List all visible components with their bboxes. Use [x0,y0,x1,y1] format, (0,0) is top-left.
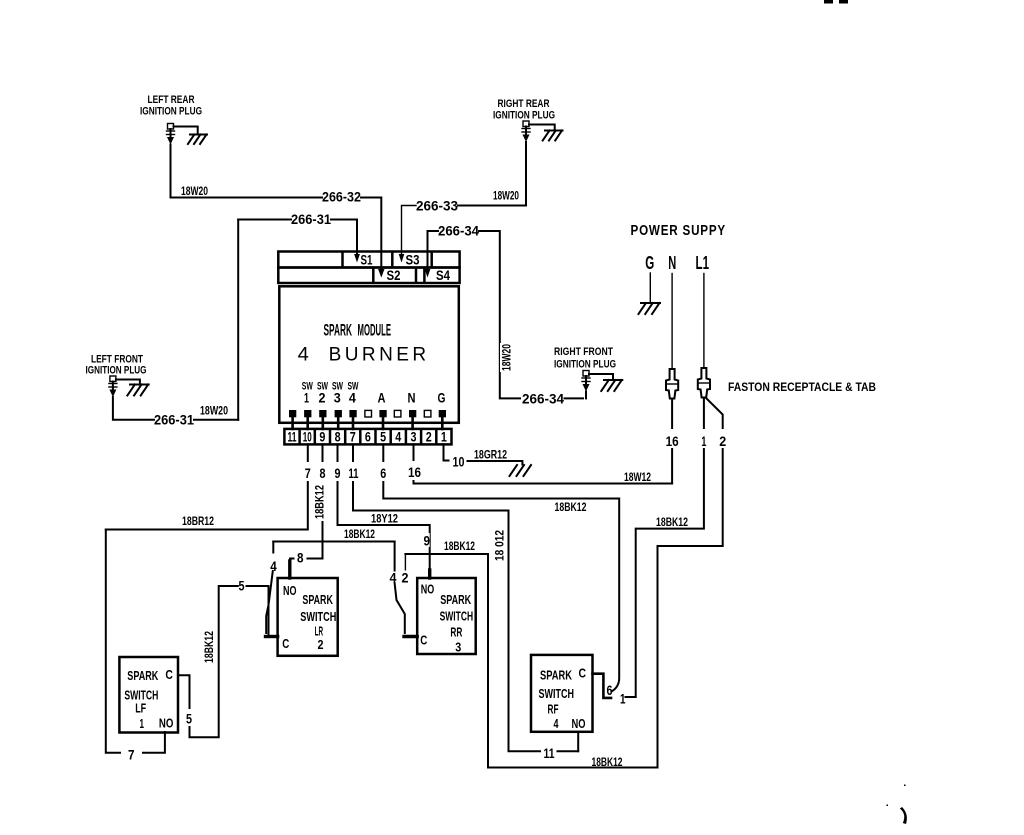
wire N-16 down [665,399,680,484]
svg-text:LEFT REAR: LEFT REAR [148,94,195,106]
wire 1 from L1 [626,398,711,698]
spark switch LR labels [282,584,336,652]
svg-text:11: 11 [288,430,297,445]
svg-text:S1: S1 [361,253,373,268]
terminal strip 11..1 [284,429,451,445]
wire terminal10 no.7 [106,444,315,529]
faston receptacle N [666,369,678,399]
RR NO post [428,570,431,578]
pin labels 1 2 3 4 A N G [304,391,446,406]
ignition plug left front [109,376,117,397]
svg-text:LF: LF [135,702,146,716]
svg-text:SWITCH: SWITCH [440,610,474,624]
svg-text:SPARK: SPARK [302,593,333,607]
ignition plug left rear [167,124,175,145]
svg-text:POWER SUPPY: POWER SUPPY [631,223,727,239]
svg-text:4: 4 [395,430,401,445]
svg-text:L1: L1 [696,253,710,273]
svg-text:11: 11 [544,746,555,761]
spark switch RR box [417,578,476,654]
svg-text:5: 5 [380,430,386,445]
wire label 18BK12 rotated on wire 8 [314,481,327,522]
wire label 266-34 lower [522,392,583,407]
svg-text:18BK12: 18BK12 [204,631,216,663]
svg-text:18BK12: 18BK12 [344,529,375,541]
module terminal pads row [289,410,446,417]
LR NO post and 8 bracket [290,551,323,579]
wire label 18BK12 rotated on riser [203,629,216,665]
svg-text:G: G [645,253,654,273]
label 1 at RF switch [620,692,626,707]
svg-text:RR: RR [450,626,462,640]
svg-text:18BK12: 18BK12 [592,757,623,769]
svg-text:9: 9 [335,466,341,481]
svg-text:10: 10 [303,430,312,445]
svg-text:3: 3 [411,430,417,445]
svg-text:1: 1 [701,434,706,449]
svg-text:2: 2 [426,430,432,445]
svg-text:SWITCH: SWITCH [300,610,336,624]
svg-text:18W20: 18W20 [493,191,519,203]
spark switch LF labels [124,668,173,731]
wire label 18BK12 on wire 2 bottom [590,756,623,769]
svg-text:11: 11 [349,466,359,481]
svg-text:FASTON RECEPTACLE & TAB: FASTON RECEPTACLE & TAB [728,380,876,394]
label RIGHT FRONT IGNITION PLUG [554,346,616,371]
wire 18BK12 between LR and RR post 4 [273,542,394,572]
svg-text:6: 6 [607,683,613,698]
svg-text:N: N [408,391,416,406]
ignition plug right front [582,371,590,399]
wire left rear plug down-right 18W20 [171,145,323,198]
wire L1 down [703,274,705,369]
page edge mark 1 [824,0,833,4]
svg-text:G: G [438,391,446,406]
svg-text:SPARK: SPARK [540,669,572,683]
svg-text:SWITCH: SWITCH [124,689,158,703]
wire LF C to riser [179,586,238,737]
faston receptacle L1 [698,368,710,398]
wire right rear plug down to 266-33 [458,142,526,206]
svg-text:6: 6 [380,466,386,481]
svg-text:IGNITION PLUG: IGNITION PLUG [493,110,555,122]
wire label 18BK12 on wire 1 [656,517,688,529]
label 2 RR and NC stub [400,554,411,586]
svg-text:2: 2 [402,571,409,586]
svg-text:5: 5 [239,579,245,594]
stray mark bottom right [887,785,907,825]
svg-text:9: 9 [319,430,325,445]
label 9 at RR switch [423,533,431,549]
svg-text:RIGHT REAR: RIGHT REAR [498,98,550,110]
svg-text:S3: S3 [406,253,420,268]
label S1 [361,253,373,268]
label LEFT REAR IGNITION PLUG [140,94,202,118]
wire terminal8 no.9 [331,444,430,577]
label N [668,253,676,273]
spark switch LF box [119,657,178,733]
wire label 18W20 rotated [500,343,514,372]
wire label 18W20 left front [198,405,230,418]
wire 266-32 to S2 [322,190,385,278]
svg-text:7: 7 [128,748,135,763]
svg-text:266-34: 266-34 [522,392,564,407]
wire label 18 012 rotated [494,528,507,563]
svg-text:18BR12: 18BR12 [182,516,214,528]
svg-text:2: 2 [318,638,324,652]
svg-text:4: 4 [554,717,559,731]
svg-text:S4: S4 [436,268,450,283]
wire left rear plug to ground [174,127,198,135]
RF C stub [593,674,612,698]
label 4 RR [388,571,398,586]
wire terminal1 no.10 to ground [444,444,523,469]
spark module main box U1 [279,286,459,423]
svg-text:8: 8 [297,551,304,566]
wire left front plug to ground [116,380,140,385]
ground left front [127,385,148,396]
spark module connector row 1 (S1 S3) [278,252,459,268]
label S3 [406,253,420,268]
svg-text:A: A [378,391,386,406]
svg-text:IGNITION PLUG: IGNITION PLUG [86,365,147,377]
ground left rear [188,135,207,145]
RR switch blade [395,583,405,633]
wire 2 from L1 tab [405,398,728,768]
label LEFT FRONT IGNITION PLUG [86,354,147,377]
svg-text:NO: NO [572,717,586,731]
svg-text:7: 7 [350,430,356,445]
svg-text:18BK12: 18BK12 [555,502,587,514]
label 4 LR [270,559,277,574]
svg-text:NO: NO [283,584,297,598]
svg-text:266-31: 266-31 [291,212,331,227]
page edge mark 2 [839,0,848,4]
ignition plug right rear [522,121,530,142]
svg-text:SPARK: SPARK [127,669,158,683]
label SPARK MODULE [324,321,392,340]
ground right rear [543,131,563,141]
label POWER SUPPY [631,223,727,239]
label 6 at RF [607,683,613,698]
RF NO post and wire 11 label [544,732,579,761]
svg-text:266-34: 266-34 [438,224,479,239]
wire G to ground [649,273,651,303]
svg-text:18Y12: 18Y12 [371,514,398,526]
label L1 [696,253,710,273]
wire label 18W20 right rear [491,190,520,203]
svg-text:18W20: 18W20 [502,344,514,371]
svg-text:IGNITION PLUG: IGNITION PLUG [140,106,202,118]
svg-text:18BK12: 18BK12 [656,517,688,529]
svg-text:2: 2 [719,434,726,449]
svg-text:NO: NO [421,583,435,597]
svg-text:266-31: 266-31 [154,413,194,428]
LR switch blade [266,571,273,633]
svg-text:SPARK: SPARK [324,321,353,340]
label 5 and wire to LR C [239,579,269,635]
label FASTON RECEPTACLE & TAB [728,380,876,394]
svg-text:1: 1 [620,692,626,707]
svg-text:1: 1 [304,391,309,406]
wire 266-34 to S4 [425,224,480,278]
wire right rear plug to ground [529,125,555,131]
wire terminal7 no.11 [345,444,540,751]
svg-text:4: 4 [298,345,310,366]
svg-text:18W12: 18W12 [624,472,651,484]
RR C stub [404,635,417,638]
wire label 18BK12 on post4 wire [342,528,378,542]
spark module connector row 2 (S2 S4) [278,268,459,284]
svg-text:4: 4 [270,559,277,574]
spark switch RF labels [539,667,587,732]
wire 266-34 right riser 18W20 to right front plug [479,231,520,398]
LR C stub [266,635,278,638]
label S4 [436,268,450,283]
svg-text:2: 2 [319,391,326,406]
svg-text:7: 7 [305,466,311,481]
svg-text:S2: S2 [387,268,401,283]
wire right front plug to ground [589,374,613,380]
svg-text:SPARK: SPARK [440,593,471,607]
svg-text:RIGHT FRONT: RIGHT FRONT [554,346,613,358]
svg-text:C: C [420,634,427,648]
pad stubs to terminal strip [293,417,443,429]
wire 18BR12 left route to LF NO [106,530,165,763]
wire label 18GR12 [474,450,507,462]
svg-text:10: 10 [453,455,465,470]
spark switch RR labels [420,583,473,655]
svg-text:18W20: 18W20 [200,406,228,418]
svg-text:18GR12: 18GR12 [474,450,507,462]
svg-text:N: N [668,253,676,273]
wire terminal5 no.6 [377,444,619,691]
label 4 BURNER [298,345,426,366]
svg-text:C: C [579,667,587,681]
wire terminal3 no.16 [406,444,672,483]
svg-text:16: 16 [666,434,679,449]
wire label 18BK12 on wire 2 at RR [444,541,475,553]
svg-text:9: 9 [424,534,431,549]
labels SW SW SW SW [302,381,359,393]
wire label 18W20 [179,185,210,198]
wire left front plug to 266-31 riser [113,220,238,428]
svg-text:SWITCH: SWITCH [539,687,575,701]
ground power G [638,303,660,314]
svg-text:18BK12: 18BK12 [444,541,475,553]
svg-text:3: 3 [334,391,341,406]
svg-text:266-33: 266-33 [416,199,458,214]
svg-text:NO: NO [159,717,174,731]
ground 18GR12 [510,465,532,476]
svg-text:8: 8 [335,430,341,445]
wire label 18W12 [624,472,651,484]
svg-text:1: 1 [140,717,145,731]
ground right front [601,380,622,391]
svg-text:C: C [282,637,289,651]
wire label 18BR12 [180,515,216,529]
svg-text:3: 3 [455,641,461,655]
svg-text:18BK12: 18BK12 [315,485,327,519]
svg-text:1: 1 [441,430,447,445]
label RIGHT REAR IGNITION PLUG [493,98,555,122]
terminal strip numbers [288,430,448,445]
svg-text:16: 16 [408,465,421,480]
svg-text:LR: LR [315,625,324,639]
spark switch RF box [531,655,593,732]
svg-text:266-32: 266-32 [322,190,361,205]
wire label 18BK12 on wire 6 [555,502,587,514]
svg-text:RF: RF [548,703,559,717]
svg-text:C: C [165,668,173,682]
svg-text:4: 4 [390,571,397,586]
label G [645,253,654,273]
svg-text:MODULE: MODULE [358,321,392,340]
wire label 18Y12 [371,514,398,526]
wire 266-31 to S1 [238,212,360,263]
wire terminal9 no.8 [290,444,330,558]
svg-text:18W20: 18W20 [181,186,208,198]
svg-text:8: 8 [320,466,326,481]
svg-text:18 012: 18 012 [495,530,507,561]
wire N down [671,274,673,370]
label S2 [387,268,401,283]
svg-text:4: 4 [349,391,356,406]
svg-text:IGNITION PLUG: IGNITION PLUG [554,359,616,371]
svg-text:5: 5 [186,712,192,727]
spark switch LR box [278,578,338,656]
wire 266-33 to S3 [399,199,459,263]
svg-text:6: 6 [365,430,371,445]
